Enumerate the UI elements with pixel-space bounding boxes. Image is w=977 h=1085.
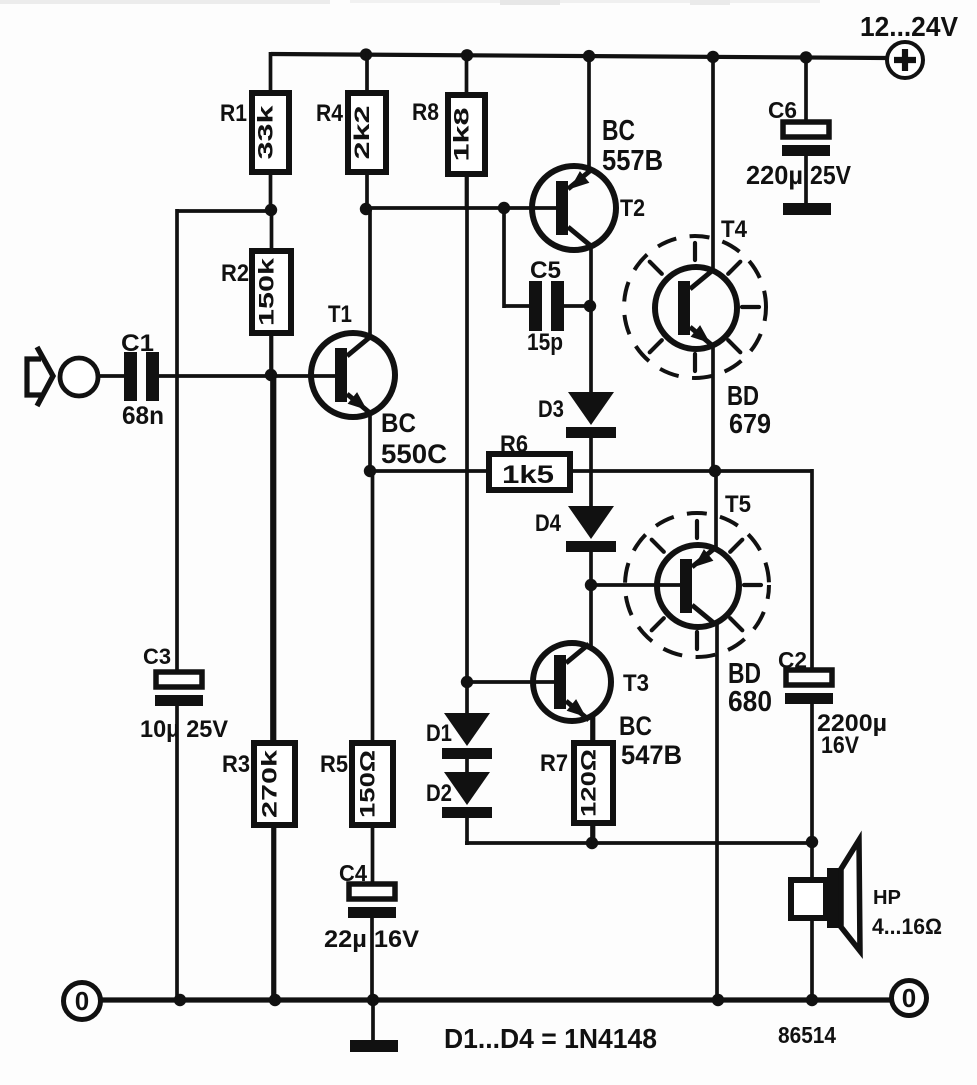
- note D1...D4 = 1N4148: [444, 1023, 657, 1054]
- wire T2 collector down to C5 node: [589, 245, 593, 308]
- svg-text:16V: 16V: [821, 732, 859, 759]
- svg-text:T3: T3: [623, 670, 649, 697]
- transistor T4 BD679: [655, 216, 771, 439]
- svg-text:120Ω: 120Ω: [578, 749, 601, 817]
- junction speaker/bottom rail: [806, 994, 818, 1006]
- wire R3 bottom to bottom rail: [271, 822, 275, 1002]
- resistor R3 270k: [222, 372, 295, 1002]
- svg-text:R3: R3: [222, 751, 250, 778]
- wire C5 branch from T2 base wire: [502, 206, 506, 308]
- svg-text:T1: T1: [328, 301, 352, 328]
- resistor R6 1k5: [489, 431, 570, 490]
- junction R2 on T1 base: [265, 369, 277, 381]
- junction T2 collector/C5/T4 base/D3: [584, 300, 596, 312]
- svg-text:12...24V: 12...24V: [860, 11, 958, 42]
- resistor R1 33k: [220, 52, 289, 212]
- junction rail/R4: [360, 48, 372, 60]
- svg-text:C3: C3: [143, 644, 171, 669]
- svg-text:D1: D1: [426, 720, 452, 747]
- svg-text:D4: D4: [535, 510, 562, 537]
- svg-text:C1: C1: [121, 330, 154, 357]
- junction T1 emitter/R5/R6: [364, 465, 376, 477]
- capacitor C6 220u 25V: [746, 97, 852, 190]
- wire node A branch down to C3: [175, 209, 179, 674]
- speaker HP 4...16 ohm: [791, 840, 942, 951]
- svg-text:2k2: 2k2: [351, 106, 374, 160]
- chassis ground bar at C6: [783, 203, 831, 215]
- junction rail/R8: [461, 49, 473, 61]
- junction R4/T1 collector/T2 base: [360, 203, 372, 215]
- svg-text:D3: D3: [538, 396, 564, 423]
- wire T3 base: [465, 680, 558, 684]
- svg-text:D1...D4 = 1N4148: D1...D4 = 1N4148: [444, 1023, 657, 1054]
- ground symbol: [350, 1000, 398, 1052]
- svg-text:R2: R2: [221, 260, 249, 287]
- junction C5 tap on T2 base wire: [498, 202, 510, 214]
- wire R2 bottom to T1 base node: [269, 330, 273, 377]
- wire T4 collector to supply rail: [711, 55, 715, 273]
- svg-text:BC: BC: [619, 711, 652, 741]
- svg-text:BC: BC: [381, 408, 416, 438]
- svg-text:4...16Ω: 4...16Ω: [872, 914, 942, 939]
- capacitor C5 15p: [504, 257, 591, 356]
- svg-text:547B: 547B: [621, 740, 682, 770]
- svg-text:150k: 150k: [256, 258, 279, 326]
- svg-text:T5: T5: [725, 491, 751, 518]
- junction R7 on lower return: [586, 837, 598, 849]
- svg-text:C2: C2: [778, 647, 807, 673]
- svg-text:220µ: 220µ: [746, 160, 803, 190]
- wire R7 to lower return: [590, 820, 594, 845]
- wire C2 to speaker node: [810, 703, 814, 844]
- junction R8-D1/T3 base: [461, 676, 473, 688]
- svg-text:0: 0: [75, 986, 89, 1016]
- junction rail/C6: [800, 51, 812, 63]
- diode D2 1N4148: [426, 772, 492, 818]
- junction R3/bottom rail: [269, 994, 281, 1006]
- svg-text:C5: C5: [530, 257, 561, 284]
- junction C3/bottom rail: [174, 994, 186, 1006]
- wire lower output return: [465, 841, 812, 845]
- input connector arrow: [27, 347, 53, 406]
- svg-text:D2: D2: [426, 780, 452, 807]
- svg-text:R4: R4: [316, 100, 344, 127]
- resistor R7 120&#937;: [540, 716, 613, 845]
- junction C4-ground/bottom rail: [367, 994, 379, 1006]
- svg-text:0: 0: [902, 983, 916, 1013]
- svg-text:R6: R6: [500, 431, 528, 458]
- resistor R2 150k: [221, 207, 291, 377]
- wire D2 to lower rail corner: [465, 816, 469, 845]
- wire C6 to chassis bar: [804, 154, 808, 205]
- resistor R8 1k8: [412, 52, 485, 210]
- svg-text:1k5: 1k5: [502, 461, 554, 489]
- svg-text:33k: 33k: [255, 105, 278, 159]
- svg-text:R1: R1: [220, 100, 247, 127]
- wire node A to R1/R2 junction: [176, 209, 273, 213]
- wire T5 collector to bottom rail: [715, 621, 719, 1002]
- svg-text:T4: T4: [721, 216, 748, 243]
- svg-text:BC: BC: [602, 115, 635, 147]
- junction rail/T4 collector: [707, 51, 719, 63]
- svg-text:25V: 25V: [810, 160, 852, 190]
- capacitor C3 10u 25V: [140, 644, 228, 743]
- wire T1 emitter to feedback node: [368, 415, 372, 473]
- svg-text:15p: 15p: [527, 329, 563, 356]
- wire speaker to bottom rail: [810, 916, 814, 1001]
- wire bottom rail: [101, 997, 891, 1002]
- junction rail/T2 emitter: [583, 50, 595, 62]
- wire T3 emitter to R7: [590, 718, 594, 746]
- transistor T5 BD680: [657, 491, 772, 718]
- transistor T4 BD679 heatsink ring: [624, 236, 766, 378]
- wire T3 base node to D1: [465, 682, 469, 716]
- svg-text:1k8: 1k8: [451, 107, 474, 161]
- junction T4 emitter on output wire: [709, 465, 721, 477]
- transistor T5 BD680 heatsink ring: [625, 513, 769, 657]
- svg-text:C4: C4: [339, 860, 367, 886]
- wire C1 to T1 base: [159, 374, 337, 378]
- svg-text:10µ 25V: 10µ 25V: [140, 716, 228, 743]
- svg-text:HP: HP: [873, 887, 901, 909]
- svg-text:BD: BD: [727, 380, 759, 411]
- wire output node to T5 emitter: [714, 469, 718, 550]
- ground terminal 0 (left): [64, 983, 101, 1020]
- wire C3 to bottom rail: [175, 705, 179, 1002]
- wire T4 emitter to output wire: [711, 344, 715, 473]
- wire C5 node to D3: [589, 306, 593, 392]
- wire feedback node to R6: [368, 469, 492, 473]
- svg-text:R5: R5: [320, 751, 348, 778]
- power terminal + 12...24V: [860, 11, 958, 78]
- svg-text:680: 680: [728, 686, 772, 718]
- svg-text:C6: C6: [768, 97, 797, 123]
- transistor T2 BC557B: [532, 115, 663, 250]
- junction node A R1/R2: [265, 204, 277, 216]
- svg-text:270k: 270k: [259, 750, 282, 818]
- junction D4/T5 base/T3 collector: [585, 579, 597, 591]
- svg-text:679: 679: [729, 408, 771, 439]
- wire D1 to D2: [465, 756, 469, 775]
- wire R6 to output corner: [567, 469, 812, 473]
- resistor R5 150&#937;: [320, 469, 393, 887]
- svg-text:R8: R8: [412, 99, 439, 126]
- diode D4 1N4148: [535, 506, 616, 552]
- diode D3 1N4148: [538, 392, 616, 438]
- transistor T1 BC550C: [311, 301, 447, 469]
- wire T5 base: [589, 583, 681, 587]
- wire R8 down through base wire to T3 base node: [465, 171, 469, 684]
- drawing number 86514: [778, 1022, 836, 1048]
- wire D4 to T5 base node to T3 collector: [589, 549, 593, 647]
- svg-text:68n: 68n: [122, 402, 164, 430]
- ground terminal 0 (right): [892, 981, 927, 1016]
- capacitor C4 22u 16V: [324, 860, 419, 1001]
- svg-text:R7: R7: [540, 750, 568, 777]
- wire T1 base node down to R3: [270, 373, 274, 749]
- svg-text:557B: 557B: [602, 145, 663, 177]
- svg-text:150Ω: 150Ω: [357, 750, 380, 818]
- svg-text:550C: 550C: [381, 439, 447, 469]
- svg-text:86514: 86514: [778, 1022, 836, 1048]
- junction T5/bottom rail: [712, 994, 724, 1006]
- wire output node down to C2: [810, 469, 814, 673]
- wire speaker node into speaker: [810, 842, 814, 882]
- wire T1 collector to R4 node: [368, 207, 372, 337]
- input terminal: [60, 358, 98, 396]
- wire T2 base from R4 node: [364, 206, 557, 210]
- diode D1 1N4148: [426, 713, 492, 759]
- wire supply rail to C6: [804, 55, 808, 124]
- resistor R4 2k2: [316, 52, 386, 212]
- junction output/speaker: [806, 836, 818, 848]
- capacitor C1 68n: [97, 330, 164, 430]
- wire T2 emitter to supply rail: [587, 54, 591, 171]
- transistor T3 BC547B: [533, 643, 682, 770]
- wire top supply rail: [271, 54, 887, 58]
- svg-text:22µ 16V: 22µ 16V: [324, 926, 419, 953]
- svg-text:T2: T2: [620, 195, 645, 222]
- capacitor C2 2200u 16V: [778, 647, 887, 759]
- wire D3 to D4 crossing feedback wire: [589, 435, 593, 507]
